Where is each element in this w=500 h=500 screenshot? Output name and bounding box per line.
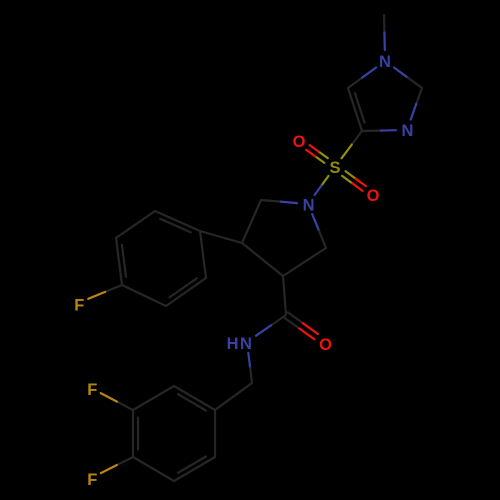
- bond C-F2 difluorophenyl: [117, 402, 133, 410]
- bond pyrrolidine-fluorophenyl: [200, 231, 242, 243]
- double bond S=O upper: [319, 152, 328, 159]
- fluorophenyl ring edge R1f-R1a: [155, 211, 200, 231]
- bond S-N sulfonamide: [322, 176, 329, 186]
- difluorophenyl ring edge R2d-R2e: [133, 457, 174, 481]
- svg-text:S: S: [329, 159, 340, 177]
- svg-text:N: N: [379, 53, 391, 71]
- double bond amide C=O: [284, 318, 299, 329]
- bond amide C-N: [271, 315, 286, 325]
- bond C4-C(=O): [283, 276, 286, 315]
- bond C-F fluorophenyl: [105, 285, 122, 292]
- svg-text:HN: HN: [227, 335, 254, 353]
- difluorophenyl ring edge R2b-R2c: [133, 386, 174, 410]
- difluorophenyl ring edge R2a-R2b: [174, 386, 215, 410]
- bond CH3-N1 (N-methyl): [383, 15, 386, 33]
- bond N3-C4 imidazole: [379, 129, 396, 132]
- fluorophenyl ring edge R1b-R1c: [166, 278, 206, 306]
- svg-text:O: O: [319, 336, 332, 354]
- bond N-C2 pyrrolidine left: [279, 202, 297, 204]
- difluorophenyl ring edge R2e-R2f: [174, 457, 215, 481]
- svg-text:O: O: [293, 133, 306, 151]
- svg-text:O: O: [367, 187, 380, 205]
- svg-text:N: N: [401, 122, 413, 140]
- svg-text:F: F: [74, 296, 84, 314]
- difluorophenyl ring edge R2f-R2a: [214, 410, 216, 457]
- bond C2-N3 imidazole: [416, 88, 422, 104]
- bond C3-C4 pyrrolidine: [242, 243, 283, 276]
- svg-text:N: N: [303, 196, 315, 214]
- bond C5-N1 imidazole: [348, 78, 362, 88]
- svg-text:F: F: [87, 381, 97, 399]
- bond C5-C4 pyrrolidine: [283, 248, 326, 276]
- bond CH2-difluorophenyl: [215, 383, 252, 410]
- bond C4-S sulfonyl: [352, 131, 362, 145]
- fluorophenyl ring edge R1e-R1f: [116, 211, 155, 238]
- bond N-CH2 benzyl: [248, 353, 250, 368]
- bond C2-C3 pyrrolidine: [242, 200, 261, 243]
- double bond S=O lower: [342, 176, 352, 183]
- difluorophenyl ring edge R2c-R2d: [132, 410, 134, 457]
- bond N1-C2 imidazole: [394, 68, 408, 78]
- bond N-C5 pyrrolidine right: [312, 214, 319, 231]
- fluorophenyl ring edge R1a-R1b: [200, 231, 206, 278]
- double bond C4=C5 imidazole: [348, 88, 362, 131]
- fluorophenyl ring edge R1d-R1e: [116, 238, 122, 285]
- fluorophenyl ring edge R1c-R1d: [122, 285, 166, 306]
- svg-text:F: F: [87, 471, 97, 489]
- bond C-F3 difluorophenyl: [117, 457, 133, 465]
